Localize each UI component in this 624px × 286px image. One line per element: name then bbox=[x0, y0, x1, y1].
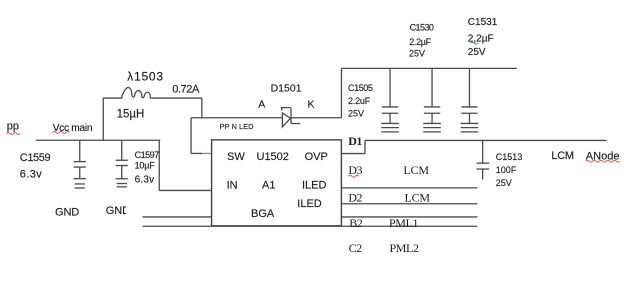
svg-text:2.2µF: 2.2µF bbox=[409, 37, 431, 47]
svg-text:D1: D1 bbox=[348, 134, 362, 148]
svg-text:LCM: LCM bbox=[405, 190, 431, 204]
svg-text:2.2uF: 2.2uF bbox=[348, 96, 371, 106]
svg-text:10µF: 10µF bbox=[135, 161, 156, 171]
svg-text:U1502: U1502 bbox=[257, 151, 289, 163]
svg-text:0.72A: 0.72A bbox=[172, 83, 200, 95]
svg-text:λ1503: λ1503 bbox=[127, 70, 164, 84]
svg-text:A: A bbox=[258, 99, 265, 111]
svg-text:GND: GND bbox=[55, 206, 79, 218]
svg-text:C1505: C1505 bbox=[348, 83, 373, 93]
svg-text:15µH: 15µH bbox=[117, 108, 145, 120]
svg-text:IN: IN bbox=[227, 180, 238, 192]
svg-text:Vcc main: Vcc main bbox=[53, 123, 92, 134]
svg-text:LCM: LCM bbox=[551, 150, 573, 162]
svg-text:PML2: PML2 bbox=[390, 241, 419, 255]
svg-text:B2: B2 bbox=[349, 216, 363, 230]
svg-text:25V: 25V bbox=[348, 108, 364, 118]
svg-text:SW: SW bbox=[227, 151, 245, 163]
svg-text:C1531: C1531 bbox=[468, 17, 498, 28]
svg-text:D2: D2 bbox=[348, 190, 362, 204]
svg-text:C1530: C1530 bbox=[410, 23, 434, 33]
svg-text:6.3v: 6.3v bbox=[20, 169, 42, 181]
svg-text:C1597: C1597 bbox=[135, 150, 160, 160]
svg-text:pp: pp bbox=[7, 121, 19, 133]
svg-text:A1: A1 bbox=[262, 180, 275, 192]
svg-text:100F: 100F bbox=[496, 165, 517, 175]
svg-text:LCM: LCM bbox=[403, 163, 429, 177]
svg-text:BGA: BGA bbox=[251, 208, 275, 220]
svg-text:25V: 25V bbox=[468, 47, 486, 58]
svg-text:6.3v: 6.3v bbox=[135, 174, 155, 185]
svg-text:C1513: C1513 bbox=[496, 152, 523, 162]
svg-text:PML1: PML1 bbox=[389, 216, 418, 230]
svg-text:D1501: D1501 bbox=[271, 83, 302, 95]
svg-text:25V: 25V bbox=[409, 49, 425, 59]
svg-text:C1559: C1559 bbox=[20, 152, 51, 164]
svg-text:K: K bbox=[308, 98, 315, 110]
svg-text:PP N LED: PP N LED bbox=[220, 122, 255, 131]
svg-text:OVP: OVP bbox=[305, 151, 328, 163]
svg-text:ILED: ILED bbox=[302, 180, 327, 192]
svg-text:25V: 25V bbox=[496, 178, 512, 188]
svg-text:ILED: ILED bbox=[297, 198, 322, 210]
svg-text:C2: C2 bbox=[349, 241, 363, 255]
